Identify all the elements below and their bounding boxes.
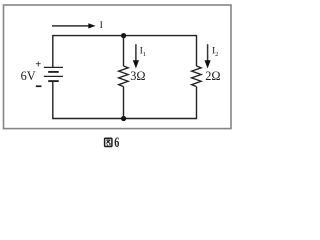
wire battery bottom lead — [52, 81, 54, 119]
wire bottom — [53, 118, 197, 120]
wire 3-ohm branch bottom lead — [123, 87, 125, 119]
svg-text:2: 2 — [215, 51, 218, 58]
wire 2-ohm branch bottom lead — [196, 87, 198, 120]
battery minus sign — [36, 85, 42, 87]
svg-text:2Ω: 2Ω — [205, 69, 220, 83]
node dot top junction — [121, 33, 126, 38]
svg-text:+: + — [35, 60, 41, 71]
svg-text:6V: 6V — [21, 69, 36, 83]
svg-text:6: 6 — [114, 134, 119, 151]
svg-text:1: 1 — [143, 51, 146, 58]
caption: drawn CJK glyph "tu" (figure) — [105, 138, 112, 146]
current arrow I1 — [133, 44, 139, 68]
wire battery top lead — [52, 35, 54, 68]
border frame — [4, 5, 232, 129]
node dot bottom junction — [121, 116, 126, 121]
wire 3-ohm branch top lead — [123, 36, 125, 66]
resistor R1 3-ohm zigzag — [119, 66, 129, 87]
current arrow I2 — [205, 44, 211, 68]
wire top (battery to 2-ohm branch) — [53, 35, 197, 37]
svg-text:I: I — [100, 20, 103, 31]
battery B1 6V — [44, 67, 63, 81]
svg-text:3Ω: 3Ω — [130, 69, 145, 83]
current arrow I — [52, 23, 96, 28]
wire 2-ohm branch top lead — [196, 35, 198, 66]
resistor R2 2-ohm zigzag — [192, 66, 202, 87]
